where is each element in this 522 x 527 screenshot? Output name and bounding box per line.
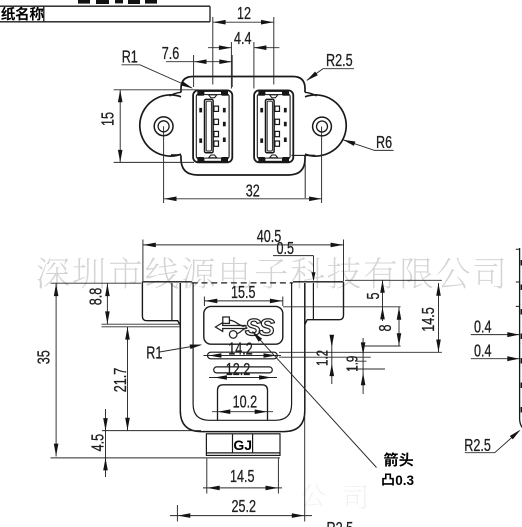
svg-text:1.2: 1.2 [312,350,330,366]
svg-text:1.9: 1.9 [342,355,360,371]
dimension 21.7 [102,327,201,431]
svg-text:14.2: 14.2 [228,340,253,360]
ear inner edges [172,283,314,321]
watermark text 深圳市线源电子科技有限公司 [37,257,504,289]
radius label R1 (plate corner) [160,345,201,352]
faint watermark fragment [301,484,325,507]
svg-text:14.5: 14.5 [419,307,439,332]
title block cut-off text remnants [78,0,90,4]
svg-text:0.5: 0.5 [276,239,294,259]
svg-text:8: 8 [376,324,396,331]
svg-text:15: 15 [99,112,119,126]
svg-text:R2.5: R2.5 [326,51,353,71]
left mounting hole [154,117,173,136]
dimension 4.4 (gap) [208,42,279,89]
dimension 25.2 [170,415,312,522]
dimension 14.5 bottom [203,459,282,494]
right mounting hole [313,117,332,136]
svg-text:15.5: 15.5 [231,283,256,303]
svg-text:0.4: 0.4 [474,342,492,362]
dimension 4.5 [51,409,281,477]
flange right side + ear bottom [305,282,344,325]
svg-text:GJ: GJ [233,437,252,453]
pocket 10.2 [218,385,268,420]
note 箭头凸0.3 [384,452,398,466]
svg-text:R2.5: R2.5 [464,436,491,456]
dimension 10.2 [212,411,273,413]
slot 14.2 [208,352,278,359]
svg-text:4.4: 4.4 [234,29,252,49]
right ear lug [292,92,347,156]
usb trident logo [215,317,247,338]
svg-text:0.3: 0.3 [395,473,414,488]
svg-text:R6: R6 [376,133,392,153]
dimension 8 [362,307,401,346]
svg-text:21.7: 21.7 [111,368,131,393]
svg-text:35: 35 [35,350,55,364]
svg-text:25.2: 25.2 [232,497,257,517]
svg-text:R1: R1 [122,48,138,68]
body outer outline [180,283,304,432]
dimension 12 (port spacing) [213,17,274,85]
svg-text:8.8: 8.8 [86,288,106,306]
svg-text:14.5: 14.5 [230,467,255,487]
svg-text:10.2: 10.2 [233,392,258,412]
svg-text:32: 32 [246,182,260,202]
svg-text:5: 5 [364,292,384,299]
dimension 35 [55,283,57,456]
svg-text:R2.5: R2.5 [327,519,354,527]
usb logo plate [204,306,283,344]
side view sliver [516,248,522,431]
bottom view: flange top edge [142,282,343,283]
label 纸名称 [1,7,15,21]
edge line below right ear [304,156,306,198]
radius label R1 (top view) [122,65,193,88]
radius label R6 (ear) [343,140,394,151]
dimension 14.5 right [279,283,442,352]
dimension 14.2 [204,355,282,357]
right USB-A receptacle shell [254,90,293,162]
dimension 15 (height) [114,90,199,163]
dimension 12.2 [209,377,277,379]
body inner outline [193,283,292,420]
dimension 7.6 (shell width) [166,55,232,87]
dimension 40.5 [143,240,344,282]
dimension 15.5 [204,297,282,307]
dimension 0.5 [273,256,314,280]
svg-text:12.2: 12.2 [226,360,251,380]
top view: connector front silhouette boss [181,77,305,176]
radius label R2.5 (top view) [307,69,354,81]
dimension 0.4 lower [471,358,519,360]
dimension 1.9 [348,338,385,394]
dimension 1.2 [279,337,371,384]
title block table [0,6,210,22]
svg-text:12: 12 [237,4,251,24]
radius label R2.5 (side view corner) [465,431,520,453]
left ear lug [140,92,181,156]
flange left side + ear bottom [142,282,180,326]
dimension 5 [283,280,442,321]
svg-text:0.4: 0.4 [474,318,492,338]
leader to arrow emboss note [253,332,377,468]
dimension 8.8 [51,283,181,327]
GJ block [206,434,280,456]
left USB-A receptacle shell [193,90,232,162]
dimension 32 (hole spacing) [164,126,322,203]
svg-text:R1: R1 [146,344,162,364]
dimension 0.4 upper [471,334,519,336]
svg-text:4.5: 4.5 [88,434,108,452]
slot 12.2 [214,367,273,373]
svg-text:7.6: 7.6 [162,44,180,64]
